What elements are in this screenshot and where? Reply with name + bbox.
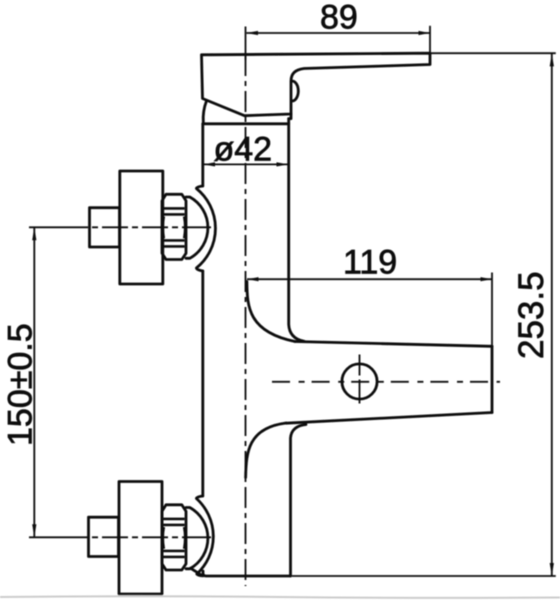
arrow 89 right — [419, 31, 431, 35]
body right edge upper, bend into spout top — [289, 119, 304, 342]
hex nut facet lines, top mount — [163, 208, 185, 557]
spout top fillet curve — [247, 282, 295, 342]
dim 89 line — [247, 32, 431, 34]
dim 89 right extension — [429, 26, 431, 53]
main vertical centerline — [245, 27, 247, 61]
bottom mount: union dome inner arc — [186, 508, 208, 569]
bottom mount: hex nut outline — [162, 505, 186, 570]
svg-text:89: 89 — [320, 0, 358, 37]
spout top edge — [295, 342, 492, 347]
body right edge lower, bend from spout bottom — [291, 425, 307, 577]
dim o42 line — [204, 163, 289, 165]
hex nut facet lines, bottom mount — [164, 518, 185, 521]
scan artifact: faint gray streak at bottom — [0, 596, 560, 598]
spout horizontal centerline — [272, 381, 500, 383]
spout hole vertical centerline — [359, 355, 361, 408]
arrow 89 left — [247, 31, 259, 35]
bottom mount: dome-to-body corner diagonal — [191, 568, 203, 575]
bottom mount: union dome outer arc — [196, 496, 213, 576]
arrow 253.5 top — [550, 53, 554, 66]
spout hole circle — [342, 364, 377, 399]
top mount: union dome outer arc — [196, 186, 215, 271]
dim 253.5 top extension — [430, 52, 556, 54]
spout bottom edge — [286, 413, 492, 424]
neck ledge right of centerline — [289, 114, 291, 119]
svg-text:119: 119 — [343, 243, 397, 281]
arrow o42 right — [277, 162, 289, 166]
top mount centerline — [29, 226, 211, 228]
dim 253.5 bottom extension — [292, 575, 556, 577]
body left edge upper segment — [201, 124, 204, 186]
lever hinge bump arc — [292, 81, 298, 101]
body bottom edge and lower left corner — [203, 571, 291, 576]
dim 253.5 line — [551, 53, 553, 576]
bottom mount centerline — [29, 536, 211, 538]
svg-text:150±0.5: 150±0.5 — [2, 323, 40, 446]
top mount: escutcheon flange — [120, 171, 163, 284]
cap-to-body shoulder arc — [203, 102, 206, 123]
svg-text:ø42: ø42 — [214, 131, 273, 169]
top mount: union dome inner arc — [186, 197, 208, 258]
arrow 119 left — [247, 277, 259, 281]
centerlines (dash-dot) — [29, 27, 500, 587]
arrow 253.5 bottom — [550, 563, 554, 576]
svg-text:253.5: 253.5 — [512, 271, 551, 359]
arrow o42 left — [204, 162, 216, 166]
arrow 150 bottom — [32, 524, 36, 537]
spout right end cap — [491, 346, 494, 412]
body top edge — [203, 122, 289, 125]
arrow 119 right — [481, 277, 493, 281]
top mount: wall tail piece — [90, 208, 120, 247]
body left edge middle segment — [201, 271, 204, 496]
arrow 150 top — [32, 227, 36, 240]
bottom mount: escutcheon flange — [119, 482, 162, 595]
dim 119 line — [247, 278, 492, 280]
dim 119 right extension — [491, 273, 493, 346]
handle lever and cartridge cap outline — [202, 53, 431, 115]
spout bottom fillet curve — [246, 423, 286, 478]
bottom mount: wall tail piece — [89, 517, 119, 556]
top mount: hex nut outline — [162, 194, 186, 259]
dimension texts — [2, 0, 552, 446]
dim 150 line — [33, 227, 35, 537]
